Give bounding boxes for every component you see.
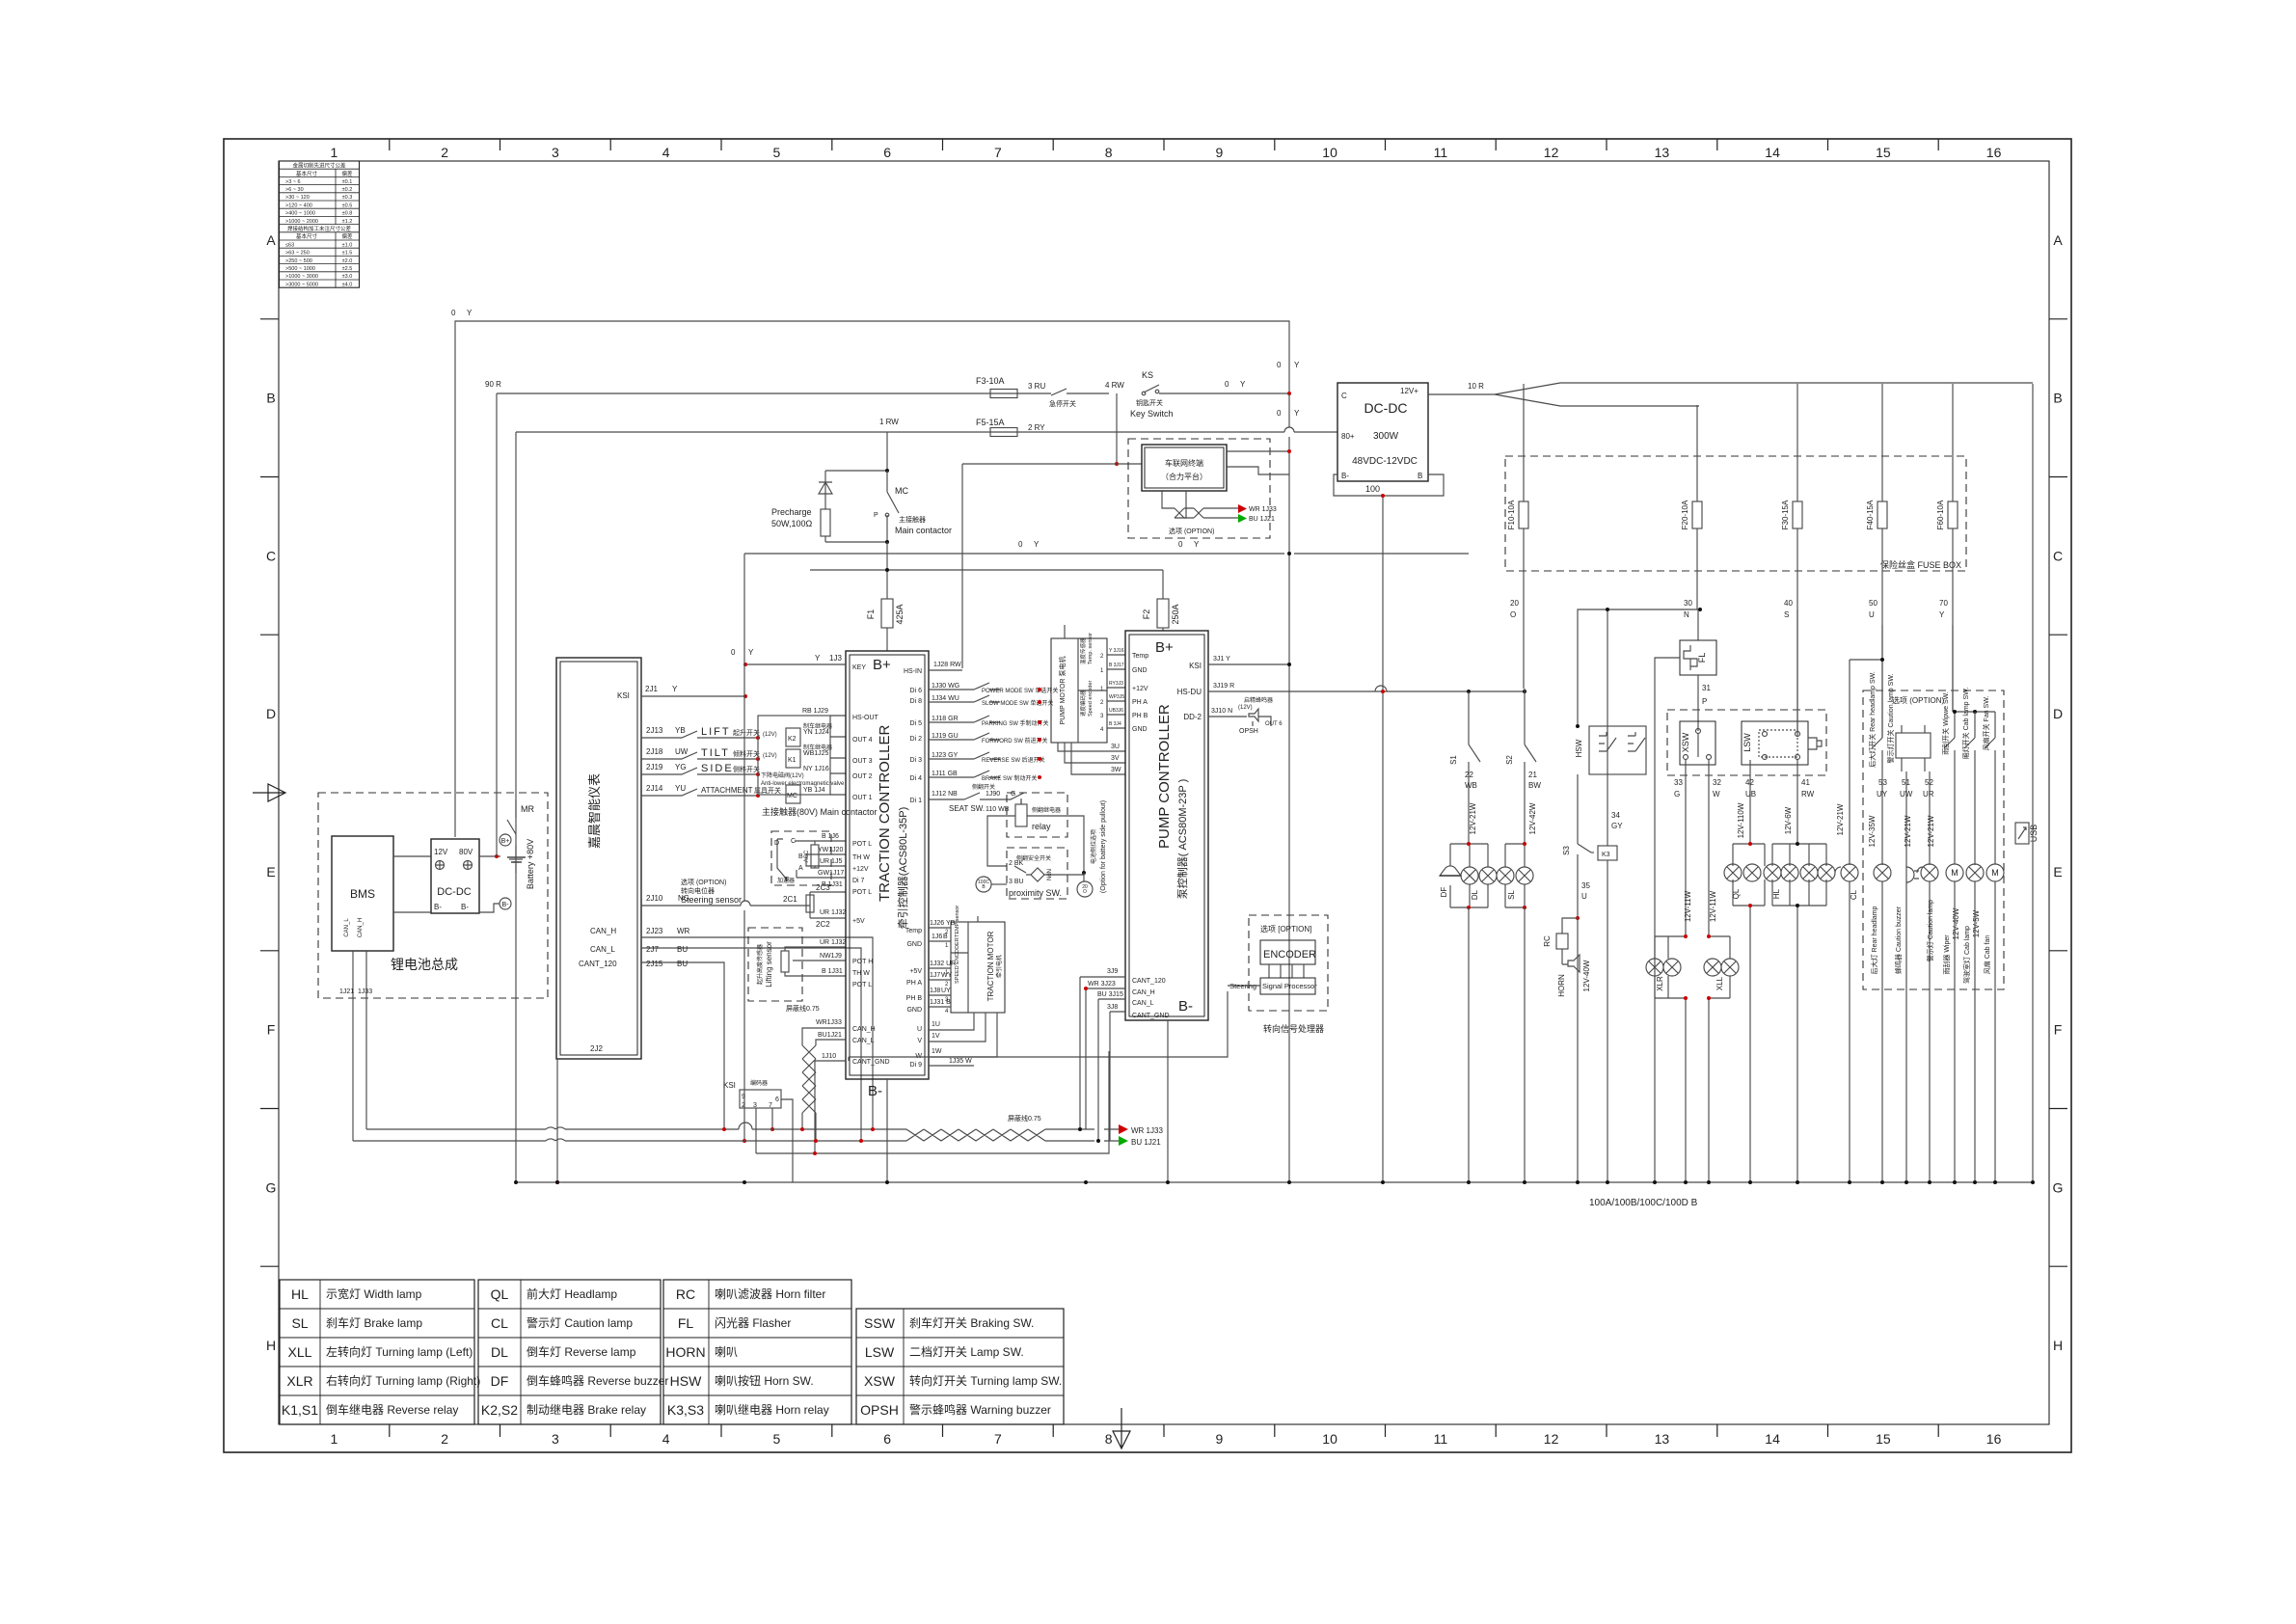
svg-text:1J32 UR: 1J32 UR [930,961,956,967]
svg-text:XLR: XLR [1656,976,1664,991]
lamp DL b [1479,867,1497,884]
svg-text:>3000 ~ 5000: >3000 ~ 5000 [285,282,318,287]
svg-text:F: F [2054,1022,2063,1038]
svg-text:OUT 4: OUT 4 [852,737,873,744]
svg-text:1: 1 [331,145,338,160]
svg-text:(Option for battery side pullo: (Option for battery side pullout) [1100,800,1107,893]
svg-text:3J10 N: 3J10 N [1211,708,1232,715]
svg-text:U: U [917,1026,922,1033]
svg-text:选项 [OPTION]: 选项 [OPTION] [1260,924,1311,934]
fuse F40-15A [1881,384,1883,501]
instrument cluster box [556,658,641,1059]
svg-text:OUT 2: OUT 2 [852,773,873,780]
svg-text:Di 4: Di 4 [910,775,923,782]
svg-text:B-: B- [1341,472,1349,480]
svg-text:RY3J3: RY3J3 [1109,681,1123,687]
svg-text:PH A: PH A [906,980,922,987]
svg-text:>1000 ~ 2000: >1000 ~ 2000 [285,219,318,225]
svg-text:3J1 Y: 3J1 Y [1213,656,1230,663]
svg-text:FL: FL [1697,653,1707,663]
svg-text:relay: relay [1032,822,1051,831]
svg-text:B: B [266,391,275,406]
svg-text:S3: S3 [1562,846,1571,855]
svg-text:Y: Y [1939,610,1945,619]
svg-text:10: 10 [1322,1431,1337,1447]
svg-text:F3-10A: F3-10A [976,376,1005,386]
svg-text:F: F [267,1022,276,1038]
svg-text:80+: 80+ [1341,432,1355,441]
switch S1 [1469,691,1480,844]
svg-text:HORN: HORN [665,1344,705,1360]
svg-text:3V: 3V [1111,755,1120,762]
svg-text:后大灯 Rear headlamp: 后大灯 Rear headlamp [1870,906,1878,974]
svg-text:TH W: TH W [852,970,870,977]
svg-text:12: 12 [1544,145,1559,160]
column 33 G with XLR lamps [1685,760,1687,1182]
lamp group SL [1505,844,1525,907]
svg-text:DL: DL [1471,889,1479,900]
svg-text:E: E [266,864,275,880]
steering 2C1 resistor [800,892,846,918]
svg-text:Di 6: Di 6 [910,688,923,694]
svg-text:12V-11W: 12V-11W [1709,890,1717,922]
svg-text:Main contactor: Main contactor [895,526,952,535]
svg-text:+5V: +5V [852,918,865,925]
svg-text:250A: 250A [1171,604,1180,624]
bottom bus junction dots [555,1180,559,1184]
DC-DC B- loop and 100 drop [1334,474,1444,1182]
svg-text:UY: UY [941,988,951,994]
fuse F2 250A [1162,570,1164,599]
svg-text:425A: 425A [895,604,905,624]
svg-text:1J21: 1J21 [339,988,354,995]
svg-text:12V+: 12V+ [1400,387,1418,395]
svg-text:+5V: +5V [909,968,922,975]
svg-text:闪光器 Flasher: 闪光器 Flasher [715,1316,791,1330]
centering arrow left [253,784,285,801]
svg-text:蜂鸣器 Caution buzzer: 蜂鸣器 Caution buzzer [1894,906,1903,974]
svg-text:CAN_L: CAN_L [344,918,350,937]
svg-text:>6 ~ 30: >6 ~ 30 [285,187,304,193]
MR switch [507,800,516,834]
svg-text:KS: KS [1142,370,1153,380]
svg-text:8: 8 [1105,145,1113,160]
horn filter RC [1562,918,1578,934]
svg-text:TEMP sensor: TEMP sensor [955,906,960,937]
svg-text:Y: Y [672,685,678,693]
svg-text:起升高度传感器: 起升高度传感器 [756,944,764,985]
svg-text:31: 31 [1702,684,1711,692]
traction CAN wires [802,1028,846,1061]
svg-text:Temp: Temp [905,928,922,934]
svg-text:22: 22 [1465,771,1473,779]
svg-text:3: 3 [552,145,559,160]
ACC resistor [811,845,819,868]
svg-text:2 RY: 2 RY [1028,423,1045,432]
svg-text:倾料开关: 倾料开关 [733,749,760,758]
svg-text:D: D [2053,706,2063,721]
svg-text:Signal Processor: Signal Processor [1262,982,1317,990]
svg-text:右转向灯 Turning lamp (Right): 右转向灯 Turning lamp (Right) [326,1373,480,1388]
svg-text:B 3J17: B 3J17 [1109,663,1124,668]
ruler row ticks [260,319,2067,1266]
svg-text:>1000 ~ 3000: >1000 ~ 3000 [285,274,318,280]
svg-text:刹车灯开关 Braking SW.: 刹车灯开关 Braking SW. [909,1315,1034,1330]
svg-text:2J18: 2J18 [646,747,663,756]
svg-text:牵引控制器(ACS80L-35P): 牵引控制器(ACS80L-35P) [896,807,909,930]
svg-text:±4.0: ±4.0 [342,282,353,287]
svg-text:1J3: 1J3 [829,654,842,663]
lamp XLL a [1704,959,1721,976]
svg-text:B-: B- [868,1083,882,1099]
svg-text:BU 3J15: BU 3J15 [1097,991,1123,998]
svg-text:Temp: Temp [1132,653,1148,660]
svg-text:1J28 RW: 1J28 RW [933,662,961,668]
bus y591 [810,569,1163,571]
switch row BRAKE SW [929,771,1000,777]
pump motor box [1051,638,1107,743]
svg-text:LSW: LSW [1742,733,1752,752]
svg-text:SLOW MODE SW 单选开关: SLOW MODE SW 单选开关 [982,699,1053,707]
svg-text:刹车灯 Brake lamp: 刹车灯 Brake lamp [326,1315,422,1330]
column CL caution lamp [1849,660,1850,1182]
centering arrow bottom [1113,1408,1130,1448]
svg-text:下降电磁阀(12V): 下降电磁阀(12V) [761,771,804,779]
svg-text:D: D [774,840,779,847]
svg-text:12V-35W: 12V-35W [1868,815,1877,847]
svg-text:3 RU: 3 RU [1028,382,1045,391]
svg-text:Di 7: Di 7 [852,878,865,884]
legend group at x=688 [663,1280,851,1424]
svg-text:6: 6 [883,145,891,160]
svg-text:G: G [1011,791,1015,798]
svg-text:A: A [2053,232,2063,248]
svg-text:+12V: +12V [1132,686,1148,692]
svg-text:HS-IN: HS-IN [904,668,922,675]
svg-text:BU: BU [677,945,688,954]
svg-text:12V: 12V [434,848,448,856]
svg-text:XLL: XLL [288,1344,312,1360]
pump controller box [1125,631,1208,1020]
fuse F20-10A [1696,405,1698,501]
svg-text:B 1J31: B 1J31 [822,968,843,975]
instrument pin wires [641,695,745,697]
svg-text:UB3J6: UB3J6 [1109,708,1123,714]
Di9 row [929,1065,974,1067]
svg-text:33: 33 [1674,778,1683,787]
svg-text:1J8: 1J8 [930,988,940,994]
svg-text:0: 0 [1018,540,1023,549]
svg-text:P: P [1702,697,1707,706]
svg-text:OUT 6: OUT 6 [1265,721,1283,727]
svg-text:1J34 WU: 1J34 WU [932,695,959,702]
svg-text:9: 9 [1216,145,1224,160]
svg-text:B+: B+ [1155,639,1174,656]
svg-text:41: 41 [1801,778,1810,787]
relay K2 [786,728,800,746]
svg-text:CL: CL [491,1315,508,1331]
lamp XLR a [1646,959,1663,976]
svg-text:F60-10A: F60-10A [1936,500,1945,529]
svg-text:V: V [917,1038,922,1044]
svg-text:D: D [266,706,276,721]
svg-text:H: H [266,1338,276,1353]
traction motor phase wires [929,1013,997,1057]
svg-text:CAN_H: CAN_H [852,1026,876,1033]
svg-text:Di 5: Di 5 [910,720,923,727]
svg-text:14: 14 [1765,145,1780,160]
svg-text:POT L: POT L [852,982,872,988]
svg-text:侧翻开关: 侧翻开关 [972,783,995,791]
svg-text:F1: F1 [866,609,876,620]
svg-text:A: A [266,232,276,248]
legend group at x=290 [280,1280,474,1424]
svg-text:SIDE: SIDE [701,763,734,774]
DC-DC 48-12 converter box [1337,383,1428,481]
svg-text:300W: 300W [1373,431,1399,442]
svg-text:UR 1J32: UR 1J32 [820,909,846,916]
svg-text:N: N [1684,610,1689,619]
lamp SL a [1497,867,1514,884]
svg-text:DF: DF [1440,887,1448,898]
svg-text:51: 51 [1902,778,1910,787]
proximity sensor symbol [1014,866,1044,881]
svg-text:E: E [2053,864,2062,880]
svg-text:屏蔽线0.75: 屏蔽线0.75 [1008,1114,1041,1123]
svg-text:YG: YG [675,763,687,771]
svg-text:≤63: ≤63 [285,242,294,248]
svg-text:CAN_H: CAN_H [590,927,616,935]
svg-text:驾驶室灯 Cab lamp: 驾驶室灯 Cab lamp [1962,926,1971,984]
svg-text:WR 1J33: WR 1J33 [1249,506,1277,513]
svg-text:XSW: XSW [1681,732,1690,752]
svg-text:HS-DU: HS-DU [1177,688,1202,696]
svg-text:Y: Y [1294,409,1300,418]
svg-text:RB 1J29: RB 1J29 [802,708,828,715]
svg-text:B: B [943,934,948,940]
svg-text:32: 32 [1713,778,1721,787]
legend table (bottom-left) [280,1280,1064,1424]
svg-text:12V-21W: 12V-21W [1836,803,1845,835]
svg-text:Lifting sensor: Lifting sensor [765,941,773,988]
pump phase wires 3U 3V 3W [1058,743,1125,774]
svg-text:1J90: 1J90 [986,791,1000,798]
svg-text:GY: GY [1611,822,1623,830]
svg-text:3U: 3U [1111,744,1120,750]
svg-text:12V-110W: 12V-110W [1737,802,1745,838]
svg-text:PH A: PH A [1132,699,1148,706]
telematics CAN twisted pair [1162,491,1186,518]
svg-text:MR: MR [521,804,534,814]
svg-text:GND: GND [1132,667,1148,674]
svg-text:SSW: SSW [864,1315,896,1331]
svg-text:B+: B+ [501,838,510,845]
svg-text:42: 42 [1745,778,1754,787]
svg-text:选项 (OPTION): 选项 (OPTION) [1892,695,1945,705]
svg-text:12V-40W: 12V-40W [1952,907,1960,939]
svg-text:喇叭滤波器 Horn filter: 喇叭滤波器 Horn filter [715,1286,825,1301]
svg-text:B-: B- [461,903,469,911]
traction motor box [951,922,1005,1013]
svg-text:3 BU: 3 BU [1009,879,1024,885]
svg-text:>120 ~ 400: >120 ~ 400 [285,203,312,208]
svg-text:O: O [1510,610,1516,619]
lamp SL b [1516,867,1533,884]
svg-text:WY: WY [941,972,953,979]
svg-text:KSI: KSI [1189,662,1202,670]
CAN terminator arrows [1119,1124,1128,1134]
svg-text:G: G [266,1179,277,1195]
USB port [2015,823,2029,844]
svg-text:KSI: KSI [617,691,630,700]
lamp XLR b [1663,959,1681,976]
relay wiring [987,816,1084,873]
svg-text:Battery +80V: Battery +80V [526,839,535,889]
svg-text:6: 6 [775,1096,779,1103]
svg-text:选项 (OPTION): 选项 (OPTION) [1169,527,1214,535]
svg-text:BU 1J21: BU 1J21 [1131,1138,1161,1147]
svg-text:15: 15 [1876,1431,1891,1447]
svg-text:雨刮器 Wiper: 雨刮器 Wiper [1942,934,1951,975]
svg-text:倒车继电器 Reverse relay: 倒车继电器 Reverse relay [326,1402,458,1417]
svg-text:POT H: POT H [852,959,873,965]
svg-text:0: 0 [1178,540,1183,549]
lamp XLL b [1721,959,1739,976]
coil box pin wires [830,716,846,795]
svg-text:制动继电器 Brake relay: 制动继电器 Brake relay [527,1403,646,1417]
steering encoder option dashed box [1249,915,1328,1011]
svg-text:车联网终端: 车联网终端 [1165,458,1203,468]
svg-text:侧翻继电器: 侧翻继电器 [1032,806,1061,814]
svg-text:REVERSE SW 后退开关: REVERSE SW 后退开关 [982,756,1045,764]
svg-text:DC-DC: DC-DC [1364,400,1407,416]
svg-text:UB: UB [1745,790,1756,798]
svg-text:YU: YU [675,784,686,793]
svg-text:Y: Y [748,648,754,657]
svg-text:A: A [798,865,803,872]
wire MC down through F1 [886,542,888,599]
lifting sensor dashed box [748,928,802,1001]
svg-text:YB: YB [675,726,686,735]
svg-text:1J19 GU: 1J19 GU [932,733,959,740]
legend group at x=888 [856,1309,1064,1424]
svg-text:PUMP MOTOR 泵电机: PUMP MOTOR 泵电机 [1058,657,1067,725]
svg-text:ENCODER: ENCODER [1263,949,1316,961]
lamp CL [1841,864,1858,881]
svg-text:主接触器: 主接触器 [899,515,926,524]
svg-text:50W,100Ω: 50W,100Ω [771,519,813,528]
svg-text:HORN: HORN [1557,974,1566,997]
svg-text:1 RW: 1 RW [879,418,899,426]
svg-text:CAN_L: CAN_L [590,945,615,954]
svg-text:XLR: XLR [286,1373,312,1389]
svg-text:1J35 W: 1J35 W [949,1058,972,1065]
svg-text:proximity SW.: proximity SW. [1009,888,1062,898]
svg-text:雨刮开关 Wipwe SW.: 雨刮开关 Wipwe SW. [1941,691,1950,755]
svg-text:WP3J5: WP3J5 [1109,694,1124,700]
svg-text:Di 9: Di 9 [910,1062,923,1069]
svg-text:7: 7 [769,1102,772,1109]
svg-text:XSW: XSW [864,1373,896,1389]
svg-text:KSI: KSI [723,1081,736,1090]
relay K3 [1598,846,1617,860]
svg-text:WB1J25: WB1J25 [803,750,829,757]
battery assembly dashed enclosure [318,793,548,998]
svg-text:±2.0: ±2.0 [342,258,353,264]
KSI connector pin wires [756,1099,793,1182]
svg-text:偏差: 偏差 [341,232,353,240]
switch row POWER MODE SW [929,683,1000,690]
svg-text:选项 (OPTION): 选项 (OPTION) [681,878,726,886]
battery cells symbol [509,846,523,873]
svg-text:2J7: 2J7 [646,945,659,954]
svg-text:S1: S1 [1449,755,1458,765]
svg-text:12V-42W: 12V-42W [1528,802,1537,834]
svg-text:±3.0: ±3.0 [342,274,353,280]
svg-text:NW1J9: NW1J9 [820,953,842,960]
svg-text:BU: BU [677,960,688,968]
relay coil group box [758,716,830,795]
column 32 W with XLL lamps [1708,760,1710,1182]
fuse F10-10A [1523,384,1525,501]
svg-text:(12V): (12V) [763,732,777,738]
horn [1562,949,1580,972]
svg-text:TILT: TILT [701,747,730,759]
pump CAN drops [1080,977,1110,1141]
svg-text:>3 ~ 6: >3 ~ 6 [285,179,301,185]
svg-text:Di 2: Di 2 [910,736,923,743]
svg-text:喇叭: 喇叭 [715,1344,738,1359]
turning lamp switch XSW [1667,710,1826,775]
svg-text:警示灯开关 Caution lamp SW.: 警示灯开关 Caution lamp SW. [1886,673,1895,763]
svg-text:Y: Y [1240,380,1246,389]
svg-text:Key Switch: Key Switch [1130,409,1174,419]
svg-text:金属切削先进尺寸公差: 金属切削先进尺寸公差 [292,162,346,170]
horizontal twisted pair [906,1129,1045,1141]
svg-text:14: 14 [1765,1431,1780,1447]
svg-text:±1.0: ±1.0 [342,242,353,248]
traction motor temp pins [929,928,951,941]
svg-text:警示灯 Caution lamp: 警示灯 Caution lamp [527,1315,633,1330]
svg-text:RC: RC [676,1286,695,1302]
svg-text:12V-11W: 12V-11W [1684,890,1692,922]
svg-text:启精蜂鸣器: 启精蜂鸣器 [1244,696,1273,704]
svg-text:40: 40 [1784,599,1793,608]
svg-text:1J33: 1J33 [358,988,372,995]
svg-text:5: 5 [773,1431,781,1447]
svg-text:11: 11 [1434,145,1448,160]
svg-text:3W: 3W [1111,767,1121,773]
svg-text:0: 0 [1277,361,1282,369]
svg-text:+12V: +12V [852,866,869,873]
svg-text:1J18 GR: 1J18 GR [932,716,959,722]
svg-text:1J30 WG: 1J30 WG [932,683,959,690]
svg-text:厢灯开关 Cab lamp SW.: 厢灯开关 Cab lamp SW. [1961,688,1970,760]
switch row SLOW MODE SW [929,695,1000,702]
cab lamp column [1964,712,1975,865]
CANT_GND run [814,1061,816,1153]
svg-text:2J1: 2J1 [645,685,658,693]
svg-text:±1.5: ±1.5 [342,251,353,257]
svg-text:B 1J31: B 1J31 [822,881,843,888]
svg-text:TRACTION CONTROLLER: TRACTION CONTROLLER [877,724,893,902]
svg-text:G: G [1674,790,1680,798]
caution buzzer [1906,867,1919,882]
wire rail y714 to S columns [1375,686,1387,691]
svg-text:Di 8: Di 8 [910,698,923,705]
svg-text:KEY: KEY [852,664,866,671]
svg-text:速度编码器: 速度编码器 [1079,690,1087,717]
